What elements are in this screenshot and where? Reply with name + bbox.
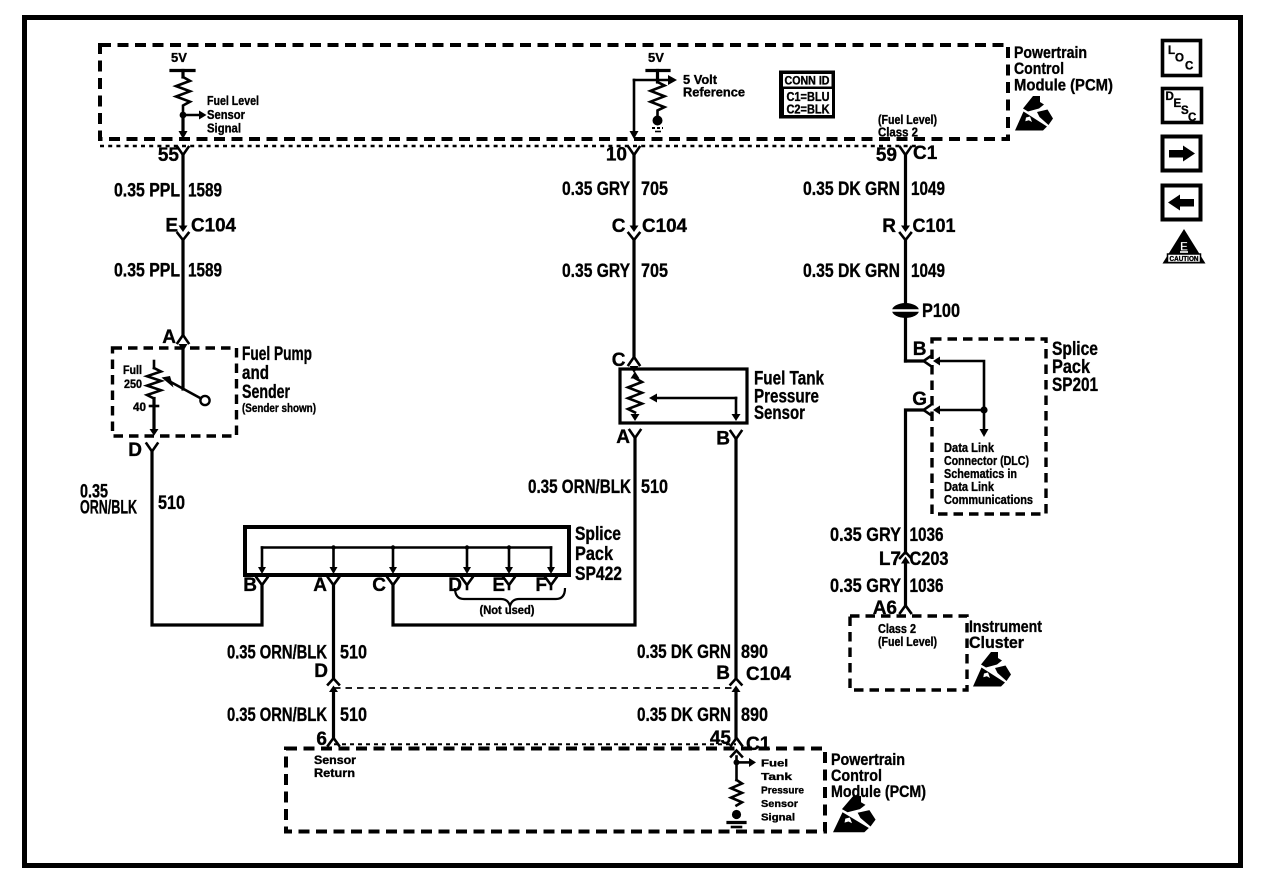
SP201 node and arrow to DLC note bbox=[980, 406, 989, 437]
resistor (5V reference) with node bbox=[651, 82, 665, 132]
svg-text:0.35 ORN/BLK: 0.35 ORN/BLK bbox=[528, 477, 631, 498]
wire 0.35 ORN/BLK 510 (pump D to SP422 B) bbox=[80, 452, 262, 626]
svg-text:Tank: Tank bbox=[761, 771, 792, 783]
PCM connector row dotted line bbox=[100, 145, 920, 147]
svg-text:0.35 DK GRN: 0.35 DK GRN bbox=[803, 179, 900, 200]
svg-text:Class 2: Class 2 bbox=[878, 622, 916, 636]
svg-text:1049: 1049 bbox=[911, 179, 945, 200]
wire 0.35 GRY 705 (upper) bbox=[632, 155, 635, 226]
Instrument Cluster box bbox=[850, 616, 967, 690]
svg-text:0.35 DK GRN: 0.35 DK GRN bbox=[637, 642, 731, 663]
connector C104 pin B (bottom row) bbox=[716, 663, 791, 692]
connector C203 pin L7 bbox=[879, 549, 949, 570]
svg-text:D: D bbox=[314, 661, 328, 682]
wire 0.35 GRY 705 (lower) bbox=[632, 240, 635, 357]
svg-text:705: 705 bbox=[641, 261, 668, 282]
svg-text:O: O bbox=[1175, 53, 1184, 65]
svg-text:P100: P100 bbox=[922, 301, 960, 322]
wire 0.35 DK GRN 1049 (upper) bbox=[904, 155, 907, 226]
svg-text:A: A bbox=[313, 575, 327, 596]
svg-text:0.35 ORN/BLK: 0.35 ORN/BLK bbox=[227, 643, 327, 664]
svg-text:R: R bbox=[882, 216, 896, 237]
SP422 pin D bbox=[448, 575, 472, 596]
svg-text:Schematics in: Schematics in bbox=[944, 467, 1017, 481]
wire 0.35 PPL 1589 (lower) bbox=[181, 240, 184, 335]
SP422 pin B bbox=[243, 575, 267, 596]
svg-text:C: C bbox=[1185, 61, 1193, 73]
PCM label (bottom) bbox=[831, 750, 926, 801]
sensor wiper arrow bbox=[649, 394, 741, 422]
svg-text:C101: C101 bbox=[913, 216, 956, 237]
svg-text:0.35 DK GRN: 0.35 DK GRN bbox=[803, 261, 900, 282]
svg-text:C1: C1 bbox=[913, 143, 938, 164]
Powertrain Control Module (PCM) top box bbox=[100, 45, 1008, 139]
SP422 drops with arrows bbox=[258, 545, 555, 574]
fuel tank pressure sensor signal (inside PCM) bbox=[731, 751, 804, 824]
svg-text:Reference: Reference bbox=[683, 86, 745, 100]
svg-text:B: B bbox=[716, 429, 730, 450]
svg-text:0.35 PPL: 0.35 PPL bbox=[114, 261, 180, 282]
SP422 bus bbox=[262, 546, 551, 549]
sender wiper bbox=[162, 350, 210, 405]
ground (inside PCM) bbox=[728, 810, 745, 827]
wire 0.35 GRY 1036 (upper) bbox=[906, 410, 924, 553]
SP201 terminal G bbox=[912, 389, 940, 415]
svg-text:1036: 1036 bbox=[910, 576, 944, 597]
Fuel Tank Pressure Sensor box bbox=[620, 369, 747, 423]
svg-text:5V: 5V bbox=[171, 50, 187, 65]
svg-text:E: E bbox=[165, 216, 178, 237]
wire 0.35 DK GRN 890 (sensor B down) bbox=[734, 439, 737, 679]
PCM bottom pin row dotted line bbox=[334, 743, 736, 745]
Class 2 (Fuel Level) label bbox=[878, 622, 937, 649]
svg-text:Sensor: Sensor bbox=[314, 755, 357, 767]
Splice Pack SP422 box bbox=[245, 527, 569, 575]
svg-text:0.35 DK GRN: 0.35 DK GRN bbox=[637, 705, 731, 726]
sensor pin A bbox=[616, 427, 640, 448]
svg-text:Class 2: Class 2 bbox=[878, 126, 918, 140]
svg-text:40: 40 bbox=[133, 402, 146, 414]
svg-text:C2=BLK: C2=BLK bbox=[787, 103, 830, 117]
sensor element resistor with arrows bbox=[628, 372, 642, 422]
5V supply (fuel level bias) bbox=[171, 50, 194, 77]
svg-text:1589: 1589 bbox=[188, 181, 222, 202]
pin 55 bbox=[158, 145, 189, 166]
wire 0.35 GRY 1036 (lower) bbox=[904, 564, 907, 606]
svg-text:C203: C203 bbox=[910, 549, 949, 570]
svg-text:5V: 5V bbox=[648, 50, 664, 65]
Splice Pack SP201 box bbox=[932, 339, 1046, 514]
wire P100 to SP201 B bbox=[906, 359, 923, 362]
SP422 pin C bbox=[372, 575, 398, 596]
C104 dashed crossing line bbox=[334, 687, 736, 689]
svg-text:Connector (DLC): Connector (DLC) bbox=[944, 454, 1029, 468]
svg-text:Data Link: Data Link bbox=[944, 480, 994, 494]
wire 0.35 DK GRN 1049 (lower) bbox=[904, 240, 907, 361]
SP422 pin E bbox=[492, 575, 514, 596]
svg-text:L: L bbox=[1168, 45, 1175, 57]
svg-text:SP201: SP201 bbox=[1052, 375, 1098, 396]
svg-text:890: 890 bbox=[741, 705, 768, 726]
connector C104 pin D (bottom row) bbox=[314, 661, 339, 692]
svg-text:890: 890 bbox=[741, 642, 768, 663]
svg-text:Data Link: Data Link bbox=[944, 441, 994, 455]
label 0.35 ORN/BLK 510 (sensor A wire) bbox=[528, 477, 668, 498]
svg-text:510: 510 bbox=[340, 705, 367, 726]
svg-text:C104: C104 bbox=[746, 664, 791, 685]
resistor (fuel level pull-up) bbox=[176, 77, 190, 112]
Powertrain Control Module (PCM) bottom box bbox=[286, 749, 825, 832]
wire branch to pin 10 bbox=[630, 80, 639, 139]
svg-text:and: and bbox=[242, 363, 269, 384]
svg-text:Pack: Pack bbox=[575, 544, 613, 565]
connector C104 pin E bbox=[165, 216, 236, 241]
sensor pin B bbox=[716, 429, 741, 450]
svg-text:B: B bbox=[716, 663, 730, 684]
sensor label bbox=[754, 369, 824, 425]
svg-text:A: A bbox=[162, 327, 176, 348]
svg-text:Communications: Communications bbox=[944, 493, 1033, 507]
svg-text:C104: C104 bbox=[642, 216, 687, 237]
svg-text:10: 10 bbox=[606, 145, 627, 166]
svg-text:Module (PCM): Module (PCM) bbox=[831, 782, 926, 801]
pin 6 bbox=[316, 729, 339, 750]
svg-text:(Sender shown): (Sender shown) bbox=[242, 403, 316, 415]
svg-text:Return: Return bbox=[314, 768, 355, 780]
PCM label (top right) bbox=[1014, 43, 1113, 95]
wire 5V to pin 55 with down arrow bbox=[179, 115, 188, 139]
svg-text:45: 45 bbox=[710, 728, 732, 749]
svg-text:Module (PCM): Module (PCM) bbox=[1014, 76, 1113, 95]
svg-text:Cluster: Cluster bbox=[969, 633, 1024, 652]
svg-text:Fuel Pump: Fuel Pump bbox=[242, 344, 312, 365]
svg-text:B: B bbox=[243, 575, 257, 596]
pin D fuel pump bbox=[128, 429, 158, 461]
svg-text:(Not used): (Not used) bbox=[480, 605, 535, 617]
svg-text:CONN ID: CONN ID bbox=[785, 76, 830, 88]
svg-text:0.35 PPL: 0.35 PPL bbox=[114, 181, 180, 202]
svg-text:Signal: Signal bbox=[761, 812, 795, 824]
arrow 5 Volt Reference bbox=[634, 73, 745, 100]
svg-text:CAUTION: CAUTION bbox=[1170, 256, 1199, 263]
svg-text:(Fuel Level): (Fuel Level) bbox=[878, 635, 937, 649]
wire 0.35 DK GRN 890 (to pin 45) bbox=[734, 692, 737, 739]
wire SP422 C to sensor A bbox=[393, 438, 635, 625]
DLC note text bbox=[944, 441, 1033, 507]
svg-text:B: B bbox=[913, 339, 927, 360]
pin 45 C1 bbox=[710, 728, 771, 755]
svg-text:Splice: Splice bbox=[575, 524, 621, 545]
svg-text:D: D bbox=[128, 440, 142, 461]
pin C fuel tank pressure sensor bbox=[612, 350, 640, 373]
pin 59 C1 bbox=[876, 143, 938, 166]
svg-text:0.35 GRY: 0.35 GRY bbox=[830, 576, 901, 597]
SP422 pin A bbox=[313, 575, 339, 596]
(Fuel Level) Class 2 note bbox=[878, 113, 937, 140]
sidebar DESC icon bbox=[1163, 89, 1202, 125]
svg-text:510: 510 bbox=[340, 643, 367, 664]
svg-text:C: C bbox=[372, 575, 386, 596]
svg-text:Pressure: Pressure bbox=[761, 785, 804, 797]
svg-text:C: C bbox=[612, 216, 626, 237]
svg-text:0.35 GRY: 0.35 GRY bbox=[562, 179, 630, 200]
Splice Pack SP201 label bbox=[1052, 339, 1098, 396]
svg-text:250: 250 bbox=[124, 379, 142, 391]
ESD symbol (top PCM) bbox=[1015, 96, 1053, 131]
svg-text:55: 55 bbox=[158, 145, 180, 166]
Sensor Return label bbox=[314, 755, 357, 780]
sidebar forward arrow icon bbox=[1163, 137, 1201, 171]
brace (Not used) bbox=[455, 588, 565, 617]
pin 10 bbox=[606, 145, 640, 166]
ESD symbol (instrument cluster) bbox=[973, 652, 1011, 687]
svg-text:0.35 ORN/BLK: 0.35 ORN/BLK bbox=[227, 705, 327, 726]
svg-text:0.35 GRY: 0.35 GRY bbox=[830, 525, 901, 546]
svg-text:59: 59 bbox=[876, 145, 897, 166]
svg-text:Signal: Signal bbox=[207, 121, 241, 136]
ESD symbol (bottom PCM) bbox=[833, 796, 876, 832]
connector C104 pin C bbox=[612, 216, 688, 240]
resistor (FTP signal) bbox=[731, 780, 742, 806]
svg-text:G: G bbox=[912, 389, 927, 410]
wire 0.35 ORN/BLK 510 (to pin 6) bbox=[332, 692, 335, 739]
svg-text:L7: L7 bbox=[879, 549, 901, 570]
Fuel Pump and Sender box bbox=[113, 348, 237, 436]
svg-text:1589: 1589 bbox=[188, 261, 222, 282]
SP422 pin F bbox=[535, 575, 556, 596]
svg-text:Full: Full bbox=[123, 365, 142, 377]
grommet P100 bbox=[891, 301, 960, 322]
svg-text:Sensor: Sensor bbox=[754, 403, 805, 424]
node + arrow Fuel Level Sensor Signal bbox=[180, 93, 259, 136]
sidebar caution triangle icon bbox=[1163, 229, 1206, 264]
SP201 internal wire B to G bbox=[940, 361, 985, 410]
svg-text:C: C bbox=[1188, 112, 1196, 124]
svg-text:C1: C1 bbox=[746, 734, 771, 755]
wire SP422 A to pin 6 : 0.35 ORN/BLK 510 bbox=[332, 585, 335, 679]
Splice Pack SP422 label bbox=[575, 524, 622, 585]
sidebar back arrow icon bbox=[1163, 186, 1201, 220]
connector C101 pin R bbox=[882, 216, 956, 240]
pin A6 bbox=[873, 598, 911, 619]
svg-text:ORN/BLK: ORN/BLK bbox=[80, 498, 137, 519]
svg-text:1049: 1049 bbox=[911, 261, 945, 282]
svg-text:0.35 GRY: 0.35 GRY bbox=[562, 261, 630, 282]
svg-text:510: 510 bbox=[158, 493, 185, 514]
sender resistor Full 250 / 40 bbox=[123, 361, 161, 430]
svg-text:Fuel: Fuel bbox=[761, 758, 788, 770]
pin A fuel pump bbox=[162, 327, 188, 352]
svg-text:SP422: SP422 bbox=[575, 564, 622, 585]
5V supply (5 volt reference) bbox=[647, 50, 669, 82]
svg-text:Sender: Sender bbox=[242, 382, 290, 403]
svg-text:C104: C104 bbox=[191, 216, 236, 237]
svg-text:Sensor: Sensor bbox=[761, 798, 798, 810]
SP201 terminal B bbox=[913, 339, 940, 366]
fuel pump label bbox=[242, 344, 316, 415]
svg-text:705: 705 bbox=[641, 179, 668, 200]
wire 0.35 PPL 1589 (upper) bbox=[181, 155, 184, 226]
Instrument Cluster label bbox=[969, 617, 1042, 652]
svg-text:1036: 1036 bbox=[910, 525, 944, 546]
svg-text:510: 510 bbox=[641, 477, 668, 498]
sidebar LOC icon bbox=[1163, 41, 1201, 76]
CONN ID box bbox=[779, 71, 835, 119]
svg-text:Fuel Level: Fuel Level bbox=[207, 93, 259, 108]
